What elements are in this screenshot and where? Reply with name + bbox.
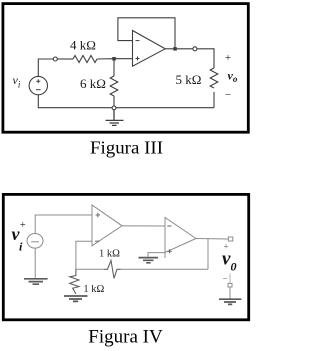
plus sign inside op-amp (136, 57, 140, 61)
minus sign in source (36, 89, 41, 91)
svg-text:+: + (20, 220, 26, 231)
ground circuit1 (106, 110, 124, 126)
wire source2 bottom to ground (34, 248, 36, 278)
source VI circuit2 (27, 234, 43, 249)
wire 4k to junction (97, 58, 133, 60)
resistor 4k zigzag (73, 56, 97, 63)
wire terminal2 to ground (229, 287, 231, 299)
frame Figura IV box (3, 194, 248, 319)
wire opamp2 output (196, 238, 228, 241)
junction dot at 4k-6k node (112, 57, 116, 61)
terminal T2 square (228, 283, 232, 287)
junction dot output (173, 47, 177, 51)
wire 6k to bottom (113, 96, 115, 108)
wire junction down to 6k (113, 59, 115, 76)
wire opamp2 plus input to ground (148, 253, 165, 257)
op-amp U2 triangle (165, 218, 196, 253)
svg-text:v0: v0 (222, 249, 236, 274)
resistor 6k zigzag (110, 76, 118, 96)
svg-text:6 kΩ: 6 kΩ (80, 76, 106, 91)
svg-text:Figura IV: Figura IV (88, 327, 163, 348)
wire 5k to bottom (213, 92, 215, 108)
bottom wire (38, 95, 214, 108)
wire source top to node (38, 59, 53, 76)
ground C circuit2 (139, 258, 159, 263)
plus sign inside opamp2 (168, 249, 172, 253)
resistor 1k horizontal zigzag (104, 261, 121, 279)
node A open circle (53, 57, 57, 61)
svg-text:Figura III: Figura III (90, 138, 163, 158)
wire opamp1 output to opamp2 input (122, 225, 165, 227)
svg-text:4 kΩ: 4 kΩ (70, 38, 96, 53)
svg-text:−: − (225, 89, 231, 101)
source VI circuit1 (29, 76, 47, 94)
wire vo minus to terminal2 (229, 274, 231, 284)
node B open circle on bottom wire (112, 106, 116, 110)
wire output to 5k (197, 49, 214, 68)
wire opamp1 minus input (76, 241, 92, 269)
node C output open circle (193, 47, 197, 51)
svg-text:−: − (222, 274, 227, 284)
feedback wire loop (118, 18, 175, 49)
plus sign inside opamp1 circuit2 (96, 213, 100, 217)
minus sign inside opamp2 (167, 225, 171, 227)
wire node to 1k horizontal (76, 268, 104, 270)
ground B circuit2 (64, 296, 88, 301)
wire node to resistor 4k (57, 58, 73, 60)
ground D circuit2 (219, 299, 241, 304)
feedback riser wire (207, 239, 209, 269)
svg-text:i: i (19, 240, 23, 254)
plus sign in source (36, 79, 40, 83)
minus sign inside opamp1 circuit2 (95, 240, 99, 242)
svg-text:1 kΩ: 1 kΩ (83, 284, 104, 295)
op-amp U1 circuit2 triangle (92, 205, 122, 246)
op-amp U1 triangle (133, 31, 166, 67)
wire source2 top to opamp1 plus input (35, 215, 94, 234)
output wire (165, 48, 193, 50)
svg-text:vo: vo (228, 68, 238, 84)
svg-text:5 kΩ: 5 kΩ (176, 72, 202, 87)
ground A circuit2 (24, 279, 48, 284)
minus inside source2 (31, 241, 39, 243)
terminal T1 square (228, 237, 232, 241)
svg-text:+: + (225, 52, 231, 64)
frame Figura III box (3, 4, 248, 133)
wire 1k to feedback riser (121, 268, 209, 270)
svg-text:1 kΩ: 1 kΩ (99, 249, 120, 260)
resistor 1k vertical zigzag (70, 269, 79, 294)
resistor 5k zigzag (210, 68, 218, 88)
minus sign inside op-amp (136, 40, 140, 42)
svg-text:vi: vi (13, 73, 21, 90)
